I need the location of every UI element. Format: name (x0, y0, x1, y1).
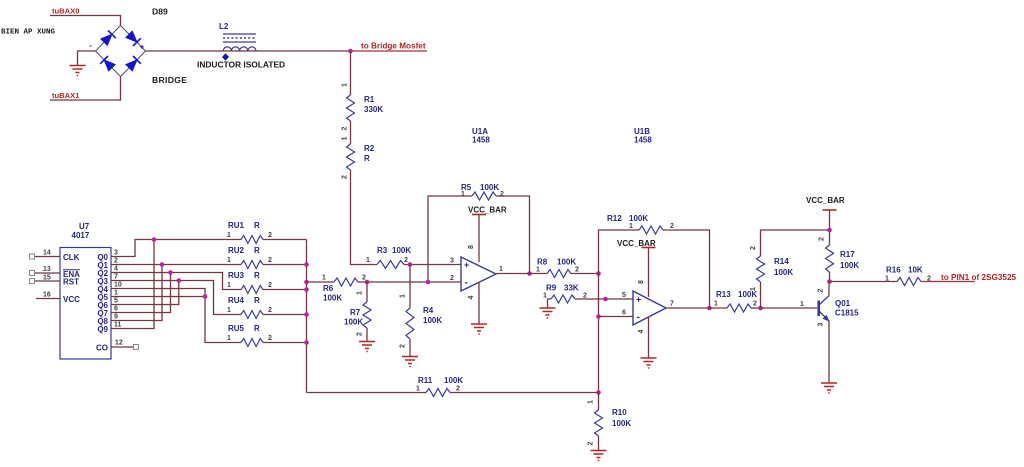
junction Q8/RU2 (160, 262, 165, 267)
svg-text:2: 2 (750, 246, 757, 250)
svg-text:100K: 100K (392, 246, 411, 255)
wire R14 bottom leg (760, 282, 762, 308)
svg-text:+: + (140, 42, 145, 52)
wire U1A pin 4 to ground (478, 283, 480, 324)
resistor R8 (547, 270, 571, 278)
svg-text:RU3: RU3 (228, 271, 245, 280)
U7 pin 12 unconnected square (134, 345, 139, 350)
svg-text:R: R (254, 296, 260, 305)
wire Q0 to RU1 (111, 240, 241, 257)
svg-text:1: 1 (885, 276, 889, 283)
svg-text:1: 1 (357, 291, 364, 295)
wire R6 to U1A pin2 (358, 281, 461, 283)
svg-text:12: 12 (115, 340, 123, 347)
svg-text:VCC_BAR: VCC_BAR (468, 206, 507, 215)
svg-text:-: - (637, 312, 640, 323)
wire R5 left leg (428, 196, 472, 282)
wire Q8 to RU2 (111, 265, 162, 321)
svg-text:R13: R13 (716, 290, 731, 299)
svg-text:2: 2 (670, 223, 674, 230)
ground (bridge) (70, 66, 86, 76)
svg-text:to Bridge Mosfet: to Bridge Mosfet (361, 42, 426, 51)
svg-text:7: 7 (670, 301, 674, 308)
wire bridge left vertex to ground (78, 51, 96, 66)
svg-text:2: 2 (450, 275, 454, 282)
svg-text:R: R (254, 246, 260, 255)
resistor R7 (363, 302, 371, 328)
svg-text:R: R (254, 324, 260, 333)
junction Q9/RU1 (152, 237, 157, 242)
wire tuBAX1 to bridge bottom (50, 77, 121, 101)
svg-text:8: 8 (638, 280, 645, 284)
svg-text:1: 1 (714, 301, 718, 308)
svg-text:VCC_BAR: VCC_BAR (806, 196, 845, 205)
svg-text:U7: U7 (79, 222, 90, 231)
resistor RU5 (241, 339, 263, 347)
resistor R14 (757, 256, 765, 282)
U7 pin 15 unconnected square (30, 279, 35, 284)
svg-text:R9: R9 (546, 284, 557, 293)
inductor L2 polarity diamond (222, 53, 229, 61)
svg-text:2: 2 (268, 232, 272, 239)
wire bridge output to node (146, 50, 351, 52)
diode D89 top-right (126, 31, 141, 46)
wire R13 to base node (751, 307, 761, 309)
svg-text:RU5: RU5 (228, 324, 245, 333)
svg-text:RST: RST (63, 278, 79, 287)
svg-text:330K: 330K (364, 105, 383, 114)
wire R4 to ground (409, 339, 411, 357)
svg-text:INDUCTOR ISOLATED: INDUCTOR ISOLATED (197, 60, 285, 70)
wire Q01 emitter to ground (828, 321, 830, 383)
diode D89 top-left (101, 30, 116, 45)
wire R16 to output stub (921, 281, 975, 283)
wire Q3 to RU4 (111, 281, 241, 315)
svg-text:9: 9 (114, 314, 118, 321)
svg-text:-: - (89, 41, 92, 51)
svg-text:10K: 10K (908, 266, 923, 275)
junction Q5/RU5 (203, 294, 208, 299)
diode D89 bottom-left (100, 56, 115, 71)
IC U7 4017 body (60, 248, 111, 360)
op-amp U1A (461, 257, 496, 291)
wire base node to Q01 (761, 307, 818, 309)
junction collector node (827, 279, 832, 284)
svg-text:R1: R1 (364, 95, 375, 104)
resistor R17 (826, 245, 834, 272)
wire R2 down to R3 (351, 170, 378, 265)
svg-text:1: 1 (342, 83, 349, 87)
svg-text:2: 2 (500, 191, 504, 198)
svg-text:2: 2 (268, 257, 272, 264)
svg-text:33K: 33K (564, 284, 579, 293)
svg-text:1: 1 (227, 257, 231, 264)
bridge rectifier D89 outline (96, 26, 146, 77)
svg-text:RU4: RU4 (228, 296, 245, 305)
junction bridge/mosfet node (348, 49, 353, 54)
svg-text:2: 2 (819, 237, 826, 241)
svg-text:2: 2 (268, 282, 272, 289)
svg-text:14: 14 (43, 250, 51, 257)
junction R5 right / output (527, 271, 532, 276)
svg-text:RU2: RU2 (228, 246, 245, 255)
wire RU2 to bus (263, 264, 307, 266)
wire Q2 to RU3 (111, 273, 241, 290)
ground (R9) (540, 308, 556, 318)
svg-text:tuBAX1: tuBAX1 (52, 91, 80, 100)
U7 pin 14 CLK wire (35, 256, 61, 258)
svg-text:1: 1 (227, 307, 231, 314)
svg-text:6: 6 (622, 310, 626, 317)
svg-text:100K: 100K (557, 258, 576, 267)
wire Q01 collector (828, 282, 830, 296)
junction R6/R7 (365, 280, 370, 285)
svg-text:4: 4 (468, 295, 475, 299)
resistor R13 (727, 304, 751, 312)
transistor Q01 C1815 (819, 296, 829, 322)
svg-text:100K: 100K (774, 268, 793, 277)
svg-text:R: R (254, 221, 260, 230)
resistor R10 (595, 410, 603, 436)
wire R10 top leg (598, 393, 600, 411)
junction bus/pin6 (596, 314, 601, 319)
U7 pin 16 VCC wire (36, 298, 60, 300)
svg-text:R6: R6 (323, 284, 334, 293)
wire Q6 to RU4 (111, 281, 179, 305)
inductor L2 winding (223, 47, 256, 51)
resistor R1 (347, 95, 355, 121)
ground (Q01 emitter) (821, 383, 837, 393)
resistor R12 (639, 226, 663, 234)
wire R9 to U1B pin5 (575, 298, 633, 300)
resistor R11 (426, 389, 450, 397)
svg-text:3: 3 (450, 258, 454, 265)
svg-text:100K: 100K (480, 183, 499, 192)
svg-text:6: 6 (114, 306, 118, 313)
wire net stub to Bridge Mosfet (351, 50, 428, 52)
svg-text:1: 1 (750, 287, 757, 291)
resistor RU2 (241, 261, 263, 269)
wire RU1 to bus (263, 239, 307, 241)
svg-text:1: 1 (342, 136, 349, 140)
resistor R4 (406, 308, 414, 339)
svg-text:100K: 100K (423, 316, 442, 325)
resistor RU3 (241, 286, 263, 294)
svg-text:-: - (465, 278, 468, 289)
junction bus/R6 (304, 280, 309, 285)
junction bus/RU5 (304, 340, 309, 345)
power VCC_BAR (U1B) (617, 239, 656, 248)
junction bus/RU2 (304, 262, 309, 267)
svg-text:1: 1 (461, 191, 465, 198)
svg-text:1: 1 (543, 293, 547, 300)
wire R17 to collector node (829, 272, 831, 282)
wire R12 right leg (663, 230, 710, 308)
svg-text:1: 1 (227, 282, 231, 289)
svg-text:13: 13 (43, 266, 51, 273)
svg-text:4: 4 (114, 266, 118, 273)
wire R7 to ground (366, 328, 368, 342)
wire bus bottom to R11 (307, 392, 427, 394)
svg-text:1458: 1458 (634, 136, 652, 145)
svg-text:tuBAX0: tuBAX0 (52, 7, 79, 16)
svg-text:L2: L2 (219, 22, 229, 31)
power VCC_BAR (collector) (806, 196, 845, 210)
svg-text:7: 7 (114, 274, 118, 281)
svg-text:100K: 100K (612, 419, 631, 428)
svg-text:R2: R2 (364, 144, 375, 153)
wire R1 to R2 (350, 121, 352, 144)
wire RU3 to bus (263, 289, 307, 291)
svg-text:VCC_BAR: VCC_BAR (617, 239, 656, 248)
wire R14 top rail (761, 230, 830, 256)
wire R12 left leg / bus (599, 230, 640, 393)
svg-text:to PIN1 of 2SG3525: to PIN1 of 2SG3525 (941, 273, 1017, 282)
wire bus to U1B pin6 (599, 316, 634, 318)
resistor R6 (334, 278, 358, 286)
svg-text:2: 2 (342, 126, 349, 130)
svg-text:R11: R11 (418, 376, 433, 385)
svg-text:+: + (636, 295, 641, 305)
junction R8/feedback bus (596, 271, 601, 276)
svg-text:R3: R3 (377, 246, 388, 255)
svg-text:1: 1 (588, 400, 595, 404)
wire U1B output (666, 307, 727, 309)
junction Q6/RU4 (177, 278, 182, 283)
svg-text:Q01: Q01 (835, 299, 851, 308)
svg-text:1: 1 (400, 294, 407, 298)
svg-text:VCC: VCC (63, 295, 80, 304)
svg-text:2: 2 (114, 258, 118, 265)
svg-text:1: 1 (629, 223, 633, 230)
svg-text:2: 2 (404, 257, 408, 264)
wire RU5 to bus (263, 342, 307, 344)
svg-text:R17: R17 (840, 250, 855, 259)
wire R3 node down to R4 (409, 265, 411, 309)
svg-text:1: 1 (227, 335, 231, 342)
svg-text:R8: R8 (537, 258, 548, 267)
wire R11 to R10 node (450, 392, 599, 394)
wire R7 top (366, 282, 368, 302)
svg-text:5: 5 (114, 298, 118, 305)
svg-text:1: 1 (114, 290, 118, 297)
svg-text:BIEN AP XUNG: BIEN AP XUNG (1, 29, 56, 37)
svg-text:100K: 100K (629, 214, 648, 223)
svg-text:R16: R16 (886, 266, 901, 275)
svg-text:2: 2 (456, 386, 460, 393)
svg-text:C1815: C1815 (835, 309, 859, 318)
resistor R2 (347, 144, 355, 170)
wire VCC_BAR to U1A pin 8 (478, 215, 480, 263)
svg-text:D89: D89 (152, 7, 168, 17)
svg-text:2: 2 (575, 267, 579, 274)
wire Q5 to RU5 (111, 296, 205, 298)
ground (R10) (591, 451, 607, 461)
U7 pin 13 ENA wire (35, 272, 61, 274)
svg-text:2: 2 (818, 288, 825, 292)
junction bus/RU3 (304, 287, 309, 292)
junction R3/R4 node (408, 262, 413, 267)
svg-text:R: R (254, 271, 260, 280)
ground (R4) (402, 357, 418, 367)
svg-text:RU1: RU1 (228, 221, 245, 230)
resistor R3 (377, 261, 404, 269)
junction Q7/RU3 (168, 270, 173, 275)
wire R8 to bus (571, 273, 599, 275)
U7 pin 12 CO wire (111, 346, 133, 348)
wire R3 to U1A pin3 (404, 264, 461, 266)
wire R9 ground leg (548, 299, 552, 308)
svg-text:100K: 100K (344, 318, 363, 327)
svg-text:2: 2 (357, 332, 364, 336)
resistor R5 (472, 192, 496, 200)
power VCC_BAR (U1A) (468, 206, 507, 215)
wire Q7 to RU3 (111, 273, 171, 313)
junction R9 / pin5 (603, 297, 608, 302)
svg-text:1: 1 (322, 275, 326, 282)
svg-text:1: 1 (536, 267, 540, 274)
svg-text:3: 3 (114, 250, 118, 257)
ground (R7) (359, 342, 375, 352)
resistor RU1 (241, 236, 263, 244)
resistor R9 (551, 295, 575, 303)
svg-text:5: 5 (622, 292, 626, 299)
junction R5 left / pin2 line (426, 280, 431, 285)
U7 pin 13 unconnected square (30, 271, 35, 276)
svg-text:11: 11 (114, 322, 122, 329)
junction R13/R14/base (758, 306, 763, 311)
svg-text:Q9: Q9 (97, 325, 108, 334)
wire collector node to R16 (830, 281, 898, 283)
junction bus/RU4 (304, 312, 309, 317)
wire RU4 to bus (263, 314, 307, 316)
svg-text:1: 1 (227, 232, 231, 239)
ground (U1B pin4) (641, 358, 657, 368)
svg-text:100K: 100K (323, 294, 342, 303)
svg-text:2: 2 (342, 175, 349, 179)
wire Q1 to RU2 (111, 264, 241, 266)
U7 pin name ENA with overline (63, 270, 80, 279)
svg-text:3: 3 (818, 322, 825, 326)
svg-text:100K: 100K (444, 376, 463, 385)
diode D89 bottom-right (126, 56, 141, 71)
svg-text:R12: R12 (607, 214, 622, 223)
wire node down to R1 (350, 51, 352, 95)
inductor L2 core bars (223, 34, 256, 42)
svg-text:2: 2 (268, 335, 272, 342)
wire R5 right leg (496, 196, 530, 274)
svg-text:CO: CO (96, 344, 108, 353)
wire tuBAX0 to bridge top (50, 16, 121, 26)
junction VCC rail / R14 (827, 228, 832, 233)
svg-text:10: 10 (114, 282, 122, 289)
resistor R16 (897, 278, 921, 286)
svg-text:1: 1 (416, 386, 420, 393)
svg-text:1: 1 (800, 301, 804, 308)
wire U1B pin 4 to ground (648, 317, 650, 358)
svg-text:+: + (464, 260, 469, 270)
svg-text:R10: R10 (612, 408, 627, 417)
wire VCC_BAR to U1B pin 8 (648, 248, 650, 298)
U7 pin 14 unconnected square (30, 254, 35, 259)
junction R11/R10 (596, 390, 601, 395)
wire Q9 to RU1 (111, 240, 154, 329)
svg-text:16: 16 (43, 292, 51, 299)
svg-text:R7: R7 (350, 308, 361, 317)
wire Q4 to RU5 (111, 289, 241, 343)
svg-text:2: 2 (588, 441, 595, 445)
wire U1A output (496, 273, 547, 275)
svg-text:1: 1 (366, 257, 370, 264)
svg-text:4017: 4017 (72, 231, 90, 240)
svg-text:4: 4 (638, 329, 645, 333)
svg-text:8: 8 (468, 245, 475, 249)
wire VCC_BAR down to rail (829, 210, 831, 245)
svg-text:CLK: CLK (63, 253, 80, 262)
ground (U1A pin4) (471, 324, 487, 334)
svg-text:R: R (364, 154, 370, 163)
op-amp U1B (633, 291, 666, 325)
svg-text:1: 1 (499, 266, 503, 273)
svg-text:100K: 100K (840, 261, 859, 270)
junction R12/output (707, 306, 712, 311)
wire summing bus vertical (306, 240, 308, 393)
svg-text:2: 2 (753, 301, 757, 308)
wire R10 to ground (598, 436, 600, 451)
U7 pin 15 RST wire (35, 280, 61, 282)
resistor RU4 (241, 311, 263, 319)
svg-text:2: 2 (268, 307, 272, 314)
svg-text:1458: 1458 (472, 136, 490, 145)
svg-text:2: 2 (400, 344, 407, 348)
svg-text:BRIDGE: BRIDGE (152, 75, 187, 85)
wire bus to R6 (307, 281, 335, 283)
svg-text:R4: R4 (423, 306, 434, 315)
svg-text:R14: R14 (774, 257, 789, 266)
